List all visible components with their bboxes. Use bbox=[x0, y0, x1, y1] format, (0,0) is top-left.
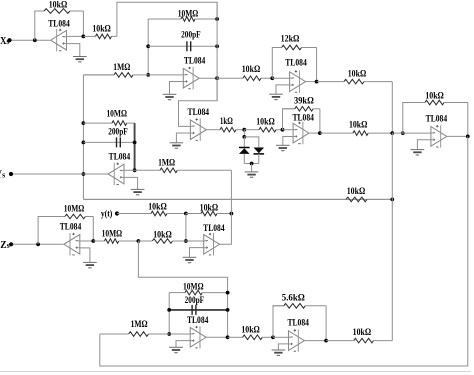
node amp output bbox=[324, 339, 328, 343]
wire amp output bbox=[304, 340, 326, 342]
svg-text:1MΩ: 1MΩ bbox=[131, 320, 148, 330]
wire amp feedback loop bbox=[273, 306, 284, 338]
wire op6 feedback down bbox=[467, 103, 469, 137]
node Ys row to bus bbox=[390, 198, 394, 202]
svg-text:TL084: TL084 bbox=[287, 318, 309, 328]
svg-text:TL084: TL084 bbox=[184, 55, 206, 65]
op-amp U1B TL084 integrator1 bbox=[183, 67, 199, 90]
wire integrator2 plus to ground bbox=[124, 177, 138, 189]
diode D2 down bbox=[254, 148, 265, 154]
svg-text:10MΩ: 10MΩ bbox=[64, 204, 85, 214]
wire op6 output bbox=[447, 135, 468, 137]
wire diode bottom join bbox=[244, 163, 258, 165]
svg-text:1MΩ: 1MΩ bbox=[113, 63, 130, 73]
resistor R 10k op2 output bbox=[317, 79, 393, 84]
wire op3 output bbox=[309, 132, 320, 134]
wire integrator1 out down to comparator bbox=[179, 78, 218, 126]
capacitor C 200pF integrator2 bbox=[108, 127, 128, 147]
op-amp U3A TL084 summer bbox=[204, 233, 220, 256]
node -Zs feedback tap bbox=[36, 242, 40, 246]
wire op1 inverting input bbox=[67, 35, 84, 37]
wire summing input to edge bbox=[392, 132, 431, 134]
wire right diode branch bottom bbox=[258, 154, 260, 164]
svg-text:TL084: TL084 bbox=[203, 223, 225, 233]
wire integrator2 right bus thick bbox=[134, 123, 136, 170]
svg-text:10kΩ: 10kΩ bbox=[148, 203, 167, 213]
svg-text:TL084: TL084 bbox=[426, 114, 448, 124]
ground op2 bbox=[269, 94, 283, 99]
ground op5 bbox=[183, 257, 197, 262]
wire integrator1 cap row bbox=[148, 45, 217, 47]
svg-text:10kΩ: 10kΩ bbox=[92, 25, 111, 35]
faint scan line bottom bbox=[0, 371, 471, 373]
op-amp U1C TL084 12k bbox=[290, 70, 306, 93]
node Ys bus cap row bbox=[82, 141, 86, 145]
wire integrator1 plus to ground bbox=[170, 82, 184, 95]
ground integrator1 bbox=[163, 94, 177, 99]
wire op6 feedback loop bbox=[403, 103, 425, 134]
node diode top bbox=[242, 128, 246, 132]
wire op1 noninverting to ground bbox=[67, 44, 80, 57]
node integrator2 cap right bbox=[133, 141, 137, 145]
ground op1 bbox=[73, 57, 87, 62]
resistor R 12k op2 feedback bbox=[272, 45, 316, 50]
wire op6 plus to ground bbox=[417, 140, 431, 150]
svg-text:10kΩ: 10kΩ bbox=[425, 91, 444, 101]
op-amp U3B TL084 -Zs bbox=[64, 233, 80, 256]
resistor R 10M -Zs feedback bbox=[38, 214, 93, 219]
wire right diode branch top bbox=[244, 137, 258, 148]
wire amp plus to ground bbox=[278, 344, 288, 350]
wire left diode branch bottom bbox=[243, 154, 245, 164]
svg-text:200pF: 200pF bbox=[181, 31, 201, 41]
node integrator3 fb right bbox=[226, 291, 230, 295]
resistor R 10k op5 feedback bbox=[186, 211, 232, 216]
wire top rail to integrator1 bbox=[117, 2, 217, 36]
svg-text:10kΩ: 10kΩ bbox=[353, 328, 372, 338]
wire Zin down to integrator3 loop bbox=[138, 241, 227, 337]
node integrator3 cap left bbox=[167, 308, 171, 312]
node integrator1 input bbox=[146, 73, 150, 77]
svg-text:1kΩ: 1kΩ bbox=[220, 117, 233, 127]
resistor R 10k integrator3 output bbox=[228, 335, 273, 340]
wire integrator3 output bbox=[206, 336, 228, 338]
wire op2 output bbox=[306, 81, 317, 83]
wire Ys bus down to bottom 10k corner bbox=[391, 133, 393, 341]
node integrator3 output bbox=[226, 335, 230, 339]
svg-text:TL084: TL084 bbox=[285, 58, 307, 68]
resistor R 10M -Zs input bbox=[93, 239, 138, 244]
wire -Zs feedback down bbox=[92, 217, 94, 242]
wire op1 feedback loop bbox=[35, 11, 42, 40]
capacitor C 200pF integrator3 bbox=[185, 296, 205, 315]
node integrator1 cap right bbox=[215, 44, 219, 48]
op-amp U2A TL084 comparator bbox=[190, 118, 206, 141]
svg-text:10kΩ: 10kΩ bbox=[349, 121, 368, 131]
svg-text:TL084: TL084 bbox=[109, 151, 131, 161]
resistor R 10k op6 feedback bbox=[403, 100, 468, 105]
wire integrator1 left bus bbox=[147, 19, 149, 75]
node y(t) mid junction bbox=[184, 212, 188, 216]
resistor R 10M integrator1 feedback bbox=[148, 17, 217, 22]
capacitor C 200pF integrator1 bbox=[181, 31, 201, 52]
resistor R 10M integrator2 feedback bbox=[83, 121, 134, 126]
node integrator3 input bbox=[167, 332, 171, 336]
svg-text:10kΩ: 10kΩ bbox=[200, 203, 219, 213]
wire integrator1 input to opamp bbox=[148, 74, 183, 76]
wire Ys bus vertical bbox=[82, 75, 84, 199]
wire integrator3 input to opamp bbox=[169, 333, 190, 335]
node summing bus junction bbox=[390, 131, 394, 135]
node op1 feedback tap bbox=[33, 38, 37, 42]
svg-text:Zs: Zs bbox=[0, 240, 9, 251]
wire op5 output up and left to 1M bbox=[220, 170, 232, 244]
wire integrator1 output bbox=[199, 77, 217, 79]
resistor R 10k op1 feedback bbox=[42, 9, 83, 14]
node integrator2 input bbox=[133, 168, 137, 172]
svg-text:5.6kΩ: 5.6kΩ bbox=[282, 294, 305, 304]
wire op2 plus to ground bbox=[276, 85, 290, 94]
resistor R 10k y(t) first bbox=[117, 211, 186, 216]
svg-text:10kΩ: 10kΩ bbox=[241, 326, 260, 336]
ground comparator bbox=[170, 143, 184, 148]
wire op5 input to edge bbox=[186, 240, 204, 242]
wire integrator2 input stub bbox=[124, 169, 135, 171]
svg-text:10MΩ: 10MΩ bbox=[178, 9, 199, 19]
node Ys bus 10M row bbox=[82, 121, 86, 125]
svg-text:TL084: TL084 bbox=[292, 113, 314, 123]
svg-text:TL084: TL084 bbox=[60, 222, 82, 232]
wire integrator3 cap row thick bbox=[169, 309, 227, 311]
ground -Zs bbox=[83, 262, 97, 267]
resistor R 10k integrator1-to-op2 bbox=[217, 76, 272, 81]
resistor R 1M integrator3 input bbox=[100, 332, 169, 337]
wire op5 plus to ground bbox=[190, 248, 204, 258]
node amp input junction bbox=[271, 335, 275, 339]
node op2 input junction bbox=[270, 76, 274, 80]
svg-text:39kΩ: 39kΩ bbox=[294, 97, 314, 107]
wire -Xs output row bbox=[10, 39, 50, 41]
node op3 output bbox=[318, 131, 322, 135]
op-amp U1D TL084 integrator2 bbox=[108, 163, 124, 186]
svg-text:10kΩ: 10kΩ bbox=[153, 230, 172, 240]
svg-text:TL084: TL084 bbox=[48, 19, 70, 29]
wire amp input to edge bbox=[273, 336, 289, 338]
svg-text:Xs: Xs bbox=[0, 36, 9, 47]
resistor R 39k op3 feedback bbox=[283, 107, 320, 112]
op-amp U3C TL084 integrator3 bbox=[190, 326, 206, 349]
svg-text:10MΩ: 10MΩ bbox=[106, 110, 127, 120]
node Ys output row bbox=[82, 172, 86, 176]
svg-text:10kΩ: 10kΩ bbox=[348, 69, 367, 79]
resistor R 10k amp output bbox=[326, 338, 392, 343]
node Zin junction bbox=[137, 239, 141, 243]
wire op2 feedback loop bbox=[272, 48, 281, 79]
resistor R 1M integrator2 input bbox=[135, 168, 232, 173]
wire integrator3 plus to ground bbox=[176, 341, 190, 348]
svg-text:10kΩ: 10kΩ bbox=[242, 65, 261, 75]
op-amp U3D TL084 amp bbox=[289, 329, 305, 352]
svg-text:10MΩ: 10MΩ bbox=[183, 282, 204, 292]
wire diode ground stem bbox=[251, 164, 253, 172]
node diode branch bbox=[242, 135, 246, 139]
wire op2 feedback down bbox=[316, 48, 318, 82]
node op6 input junction bbox=[401, 131, 405, 135]
wire -Zs input stub bbox=[80, 240, 94, 242]
ground op3 bbox=[276, 145, 290, 150]
resistor R 10k diode-to-op3 bbox=[244, 127, 282, 132]
resistor R 10k op3 output bbox=[320, 131, 392, 136]
wire y mid down to op5 input bbox=[185, 214, 187, 242]
node integrator1 output bbox=[215, 76, 219, 80]
node y(t) terminal bbox=[115, 211, 119, 215]
svg-text:TL084: TL084 bbox=[187, 315, 209, 325]
resistor R 1M integrator1 input bbox=[83, 73, 148, 78]
wire op3 input to edge bbox=[283, 129, 294, 131]
wire -Zs output row bbox=[11, 243, 64, 245]
op-amp U2C TL084 summing bbox=[431, 125, 447, 148]
wire op3 plus to ground bbox=[283, 137, 293, 146]
svg-text:10kΩ: 10kΩ bbox=[256, 117, 275, 127]
op-amp U1A TL084 bbox=[51, 29, 67, 52]
node -Xs terminal bbox=[7, 38, 11, 42]
node -Zs input junction bbox=[91, 239, 95, 243]
node op6 output bbox=[466, 135, 470, 139]
node integrator1 fb right bbox=[215, 17, 219, 21]
node diode bottom bbox=[250, 162, 254, 166]
wire op3 feedback loop bbox=[283, 109, 295, 130]
wire integrator2 output bbox=[83, 173, 108, 175]
wire integrator1 right bus bbox=[216, 2, 218, 101]
diode D1 up bbox=[239, 148, 250, 154]
wire diode drop bbox=[243, 130, 245, 137]
resistor R 5.6k feedback bbox=[273, 304, 326, 309]
svg-text:y(t): y(t) bbox=[101, 208, 113, 218]
wire op2 out down to summing bus bbox=[391, 82, 393, 134]
svg-text:TL084: TL084 bbox=[188, 107, 210, 117]
svg-text:10kΩ: 10kΩ bbox=[49, 1, 68, 11]
wire Ys long row bbox=[83, 198, 392, 200]
node integrator3 cap right bbox=[226, 308, 230, 312]
wire op2 input to edge bbox=[272, 77, 289, 79]
node op3 input junction bbox=[281, 128, 285, 132]
wire -Zs plus to ground bbox=[80, 248, 90, 263]
resistor R 1k comparator output bbox=[206, 127, 244, 132]
wire integrator2 cap row bbox=[83, 141, 134, 143]
svg-text:10kΩ: 10kΩ bbox=[347, 187, 366, 197]
svg-text:10MΩ: 10MΩ bbox=[102, 230, 123, 240]
wire Ys to left edge bbox=[11, 173, 83, 175]
ground amp bbox=[272, 350, 286, 355]
svg-text:Ys: Ys bbox=[0, 169, 5, 180]
svg-text:1MΩ: 1MΩ bbox=[158, 158, 175, 168]
node op2 output bbox=[315, 80, 319, 84]
node op1 input junction bbox=[82, 35, 86, 39]
svg-text:12kΩ: 12kΩ bbox=[281, 34, 300, 44]
node op5 feedback junction bbox=[230, 212, 234, 216]
ground integrator3 bbox=[169, 347, 183, 352]
resistor R 10k op1 output bbox=[83, 34, 117, 39]
op-amp U2B TL084 39k bbox=[293, 122, 309, 145]
wire comparator plus to ground bbox=[176, 133, 190, 143]
svg-text:200pF: 200pF bbox=[108, 127, 128, 137]
wire big loop right and bottom bbox=[100, 136, 468, 366]
resistor R 10k Ys-to-summing bbox=[83, 197, 392, 202]
wire integrator3 left bus bbox=[168, 293, 170, 334]
wire op3 feedback down bbox=[319, 109, 321, 133]
node -Zs terminal bbox=[9, 242, 13, 246]
wire amp feedback down bbox=[325, 306, 327, 341]
ground integrator2 bbox=[131, 189, 145, 194]
resistor R 10M integrator3 feedback bbox=[169, 290, 227, 295]
wire -Zs feedback loop bbox=[38, 217, 65, 245]
wire Ys to 1M corner bbox=[83, 74, 114, 76]
node op5 input junction bbox=[184, 239, 188, 243]
wire left diode branch top bbox=[243, 137, 245, 148]
node -Ys terminal bbox=[9, 172, 13, 176]
resistor R 10k op5 input bbox=[138, 239, 186, 244]
ground op6 bbox=[411, 150, 425, 155]
wire op1 feedback down bbox=[82, 11, 84, 36]
node integrator1 cap left bbox=[146, 44, 150, 48]
svg-text:200pF: 200pF bbox=[185, 296, 205, 306]
ground diodes bbox=[245, 172, 259, 177]
